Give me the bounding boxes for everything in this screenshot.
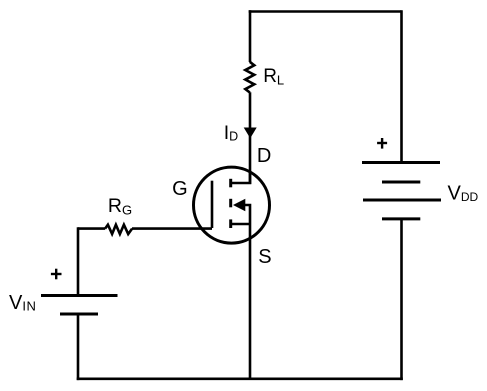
wire source branch vertical to bottom bbox=[249, 224, 252, 379]
wire from RG to gate bbox=[132, 227, 212, 230]
battery VIN positive plate bbox=[41, 294, 118, 297]
battery VDD cell1 negative plate bbox=[382, 181, 420, 184]
svg-text:D: D bbox=[257, 145, 271, 167]
drain connection inside circle bbox=[231, 172, 250, 183]
wire right vertical from VDD battery to bottom bbox=[400, 219, 403, 380]
transistor Q1 body circle bbox=[194, 167, 270, 243]
body connection line bbox=[244, 205, 250, 224]
battery VDD cell2 positive plate bbox=[363, 199, 441, 202]
source connection inside circle bbox=[231, 223, 250, 226]
wire bottom horizontal bbox=[77, 377, 403, 380]
resistor RG bbox=[105, 225, 132, 234]
battery VDD cell2 negative plate bbox=[382, 217, 420, 220]
wire gate lead from corner to RG bbox=[78, 227, 105, 230]
plus sign VIN bbox=[51, 269, 62, 280]
battery VDD cell1 positive plate bbox=[362, 161, 440, 164]
channel segment bottom bbox=[229, 219, 232, 228]
svg-text:S: S bbox=[258, 246, 271, 268]
body arrow (points to channel) bbox=[233, 199, 245, 211]
wire from RL to MOSFET drain bbox=[249, 92, 252, 184]
plus sign VDD bbox=[377, 138, 387, 149]
resistor RL bbox=[245, 62, 254, 93]
channel segment middle bbox=[229, 199, 232, 208]
current arrow ID bbox=[244, 128, 257, 139]
wire from VIN to bottom bbox=[77, 314, 80, 380]
transistor Q1 (n-channel MOSFET) bbox=[194, 167, 270, 243]
wire top horizontal from drain branch to VDD branch bbox=[249, 10, 402, 13]
battery VIN negative plate bbox=[60, 313, 98, 316]
gate bar bbox=[211, 181, 214, 228]
wire left vertical from corner to VIN battery bbox=[77, 227, 80, 295]
wire drain branch top vertical bbox=[249, 10, 252, 62]
svg-text:G: G bbox=[172, 178, 188, 200]
wire right vertical from top to VDD battery bbox=[400, 10, 403, 164]
channel segment top bbox=[229, 179, 232, 188]
